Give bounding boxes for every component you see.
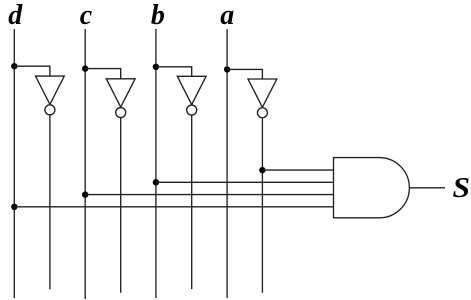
svg-text:a: a <box>220 0 234 31</box>
wire a' vertical <box>261 118 263 293</box>
wire a to inverter U4 input <box>227 69 262 79</box>
inverter U1 triangle <box>36 76 65 104</box>
wire d vertical <box>13 29 15 298</box>
inverter U3 bubble <box>187 105 197 115</box>
wire AND output to S <box>409 187 445 189</box>
wire d to inverter U1 input <box>14 66 50 76</box>
svg-text:c: c <box>80 0 93 31</box>
wire c' vertical <box>120 118 122 293</box>
wire b vertical <box>155 29 157 298</box>
svg-text:b: b <box>151 0 165 31</box>
svg-text:d: d <box>8 0 23 31</box>
wire b to inverter U3 input <box>156 67 192 77</box>
junction dot on b to AND input 2 <box>153 179 159 185</box>
wire b' vertical <box>191 116 193 290</box>
AND gate U5 body <box>334 158 410 218</box>
junction dot on c to inverter U2 <box>82 65 88 71</box>
wire b to AND gate input 2 <box>156 181 334 183</box>
junction dot on a to inverter U4 <box>224 66 230 72</box>
wire c to inverter U2 input <box>85 69 121 79</box>
inverter U4 bubble <box>257 108 267 118</box>
junction dot on c to AND input 3 <box>82 191 88 197</box>
inverter U4 triangle <box>248 79 277 107</box>
wire c to AND gate input 3 <box>85 194 333 196</box>
wire a' to AND gate input 1 <box>262 169 333 171</box>
inverter U2 triangle <box>106 79 135 107</box>
svg-text:S: S <box>453 173 471 204</box>
wire c vertical <box>84 29 86 299</box>
inverter U2 bubble <box>116 108 126 118</box>
wire d to AND gate input 4 <box>14 206 333 208</box>
wire a vertical <box>226 29 228 298</box>
junction dot on a' to AND input 1 <box>259 167 265 173</box>
junction dot on b to inverter U3 <box>153 64 159 70</box>
junction dot on d to AND input 4 <box>11 204 17 210</box>
inverter U1 bubble <box>45 105 55 115</box>
wire d' vertical <box>49 115 51 289</box>
junction dot on d to inverter U1 <box>11 63 17 69</box>
inverter U3 triangle <box>177 76 206 104</box>
